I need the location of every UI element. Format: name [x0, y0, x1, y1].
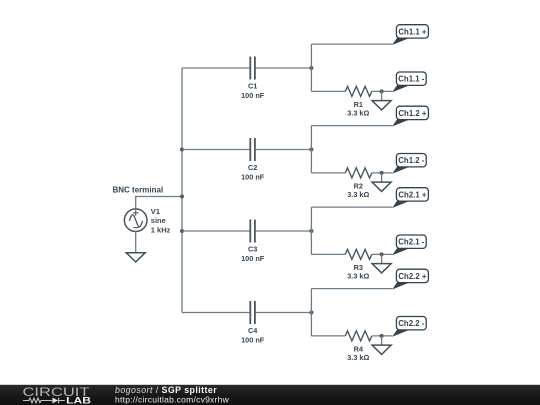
svg-text:100 nF: 100 nF: [241, 91, 265, 100]
svg-text:C1: C1: [248, 81, 257, 90]
wire: vertical split: [310, 207, 312, 254]
voltage source V1 sine 1 kHz: [124, 207, 170, 235]
flag Ch1.2 -: [392, 154, 426, 174]
svg-text:LAB: LAB: [66, 396, 91, 405]
wire: resistor R4 to Ch2.2 - flag: [372, 335, 393, 337]
node: junction at ground tap: [380, 89, 384, 93]
node: bus junction C2 row: [180, 148, 184, 152]
wire: node to resistor R1: [311, 90, 345, 92]
svg-text:Ch2.2 -: Ch2.2 -: [398, 319, 424, 328]
node: junction at ground tap: [380, 171, 384, 175]
flag Ch2.2 -: [392, 317, 426, 337]
wire: to Ch1.1 + flag: [311, 43, 392, 45]
flag Ch1.1 +: [392, 25, 428, 45]
ground below R4: [372, 336, 391, 355]
CircuitLab logo: LAB text: [66, 396, 91, 405]
svg-text:C2: C2: [248, 163, 257, 172]
capacitor C2 100 nF: [241, 138, 265, 181]
resistor R4 3.3 kOhm: [345, 331, 372, 362]
svg-text:100 nF: 100 nF: [241, 254, 265, 263]
svg-text:3.3 kΩ: 3.3 kΩ: [347, 190, 369, 199]
wire: resistor R1 to Ch1.1 - flag: [372, 90, 393, 92]
svg-text:C3: C3: [248, 244, 257, 253]
ground below R3: [372, 254, 391, 273]
wire: to Ch2.1 + flag: [311, 206, 392, 208]
CircuitLab logo: resistor zigzag and diode: [23, 398, 65, 404]
capacitor C1 100 nF: [241, 57, 265, 100]
wire: vertical split: [310, 289, 312, 336]
flag Ch2.2 +: [392, 269, 428, 289]
footer bar: [0, 385, 540, 405]
wire: bus to C3 left lead: [182, 230, 249, 232]
svg-text:Ch1.2 +: Ch1.2 +: [398, 109, 426, 118]
wire: node to resistor R2: [311, 172, 345, 174]
node: junction at C3 output: [309, 229, 313, 233]
svg-text:Ch2.1 -: Ch2.1 -: [398, 238, 424, 247]
wire: source top to bus: [136, 197, 182, 209]
ground below R1: [372, 91, 391, 110]
wire: main vertical bus: [181, 68, 183, 313]
wire: to Ch2.2 + flag: [311, 288, 392, 290]
wire: bus to C4 left lead: [182, 312, 249, 314]
flag Ch2.1 -: [392, 235, 426, 255]
svg-text:Ch2.1 +: Ch2.1 +: [398, 190, 426, 199]
wire: to Ch1.2 + flag: [311, 125, 392, 127]
wire: resistor R3 to Ch2.1 - flag: [372, 253, 393, 255]
wire: C2 right lead to node: [256, 149, 312, 151]
svg-text:Ch2.2 +: Ch2.2 +: [398, 272, 426, 281]
svg-text:3.3 kΩ: 3.3 kΩ: [347, 271, 369, 280]
flag Ch2.1 +: [392, 188, 428, 208]
node: junction at C4 output: [309, 311, 313, 315]
svg-text:1 kHz: 1 kHz: [151, 226, 171, 235]
node: junction at C2 output: [309, 148, 313, 152]
wire: node to resistor R4: [311, 335, 345, 337]
svg-text:V1: V1: [151, 207, 160, 216]
flag Ch1.1 -: [392, 72, 426, 92]
node: bus junction source row: [180, 195, 184, 199]
wire: C4 right lead to node: [256, 312, 312, 314]
svg-text:http://circuitlab.com/cv9xrhw: http://circuitlab.com/cv9xrhw: [115, 394, 230, 404]
wire: bus to C1 left lead: [182, 67, 249, 69]
node: junction at ground tap: [380, 334, 384, 338]
wire: vertical split: [310, 44, 312, 91]
CircuitLab logo: CIRCUIT text: [23, 385, 90, 399]
wire: C1 right lead to node: [256, 67, 312, 69]
ground below source: [126, 253, 145, 262]
resistor R1 3.3 kOhm: [345, 86, 372, 117]
svg-text:3.3 kΩ: 3.3 kΩ: [347, 108, 369, 117]
svg-text:100 nF: 100 nF: [241, 172, 265, 181]
wire: node to resistor R3: [311, 253, 345, 255]
ground below R2: [372, 173, 391, 192]
svg-text:Ch1.1 +: Ch1.1 +: [398, 27, 426, 36]
svg-text:BNC terminal: BNC terminal: [113, 186, 164, 195]
svg-text:C4: C4: [248, 326, 258, 335]
svg-text:100 nF: 100 nF: [241, 335, 265, 344]
svg-text:Ch1.2 -: Ch1.2 -: [398, 156, 424, 165]
node: junction at C1 output: [309, 66, 313, 70]
capacitor C3 100 nF: [241, 220, 265, 263]
wire: C3 right lead to node: [256, 230, 312, 232]
wire: bus to C2 left lead: [182, 149, 249, 151]
capacitor C4 100 nF: [241, 301, 265, 344]
resistor R3 3.3 kOhm: [345, 249, 372, 280]
svg-text:bogosort / SGP splitter: bogosort / SGP splitter: [115, 385, 217, 395]
flag Ch1.2 +: [392, 106, 428, 126]
footer url: [115, 394, 230, 404]
wire: source bottom lead: [135, 232, 137, 253]
node: bus junction C3 row: [180, 229, 184, 233]
wire: vertical split: [310, 126, 312, 173]
wire: resistor R2 to Ch1.2 - flag: [372, 172, 393, 174]
resistor R2 3.3 kOhm: [345, 168, 372, 199]
footer title: bogosort / SGP splitter: [115, 385, 217, 395]
node: junction at ground tap: [380, 252, 384, 256]
svg-text:sine: sine: [151, 216, 166, 225]
svg-text:Ch1.1 -: Ch1.1 -: [398, 75, 424, 84]
svg-text:3.3 kΩ: 3.3 kΩ: [347, 353, 369, 362]
node label: BNC terminal: [113, 186, 164, 195]
